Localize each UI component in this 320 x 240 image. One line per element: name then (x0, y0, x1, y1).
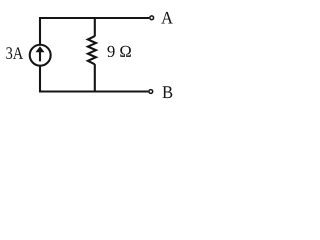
current source I1 circle (30, 45, 51, 66)
wire left lower segment (39, 66, 41, 92)
terminal A circle (150, 16, 154, 20)
wire bottom horizontal (39, 90, 148, 92)
wire top horizontal (39, 17, 149, 19)
resistor R zigzag (88, 36, 96, 64)
resistor R top lead (94, 18, 96, 36)
node A label (161, 12, 173, 24)
node B label (163, 86, 173, 98)
resistor R bottom lead (94, 64, 96, 91)
terminal B circle (149, 90, 153, 94)
label 9 ohm (108, 46, 131, 57)
current source arrow shaft (39, 52, 41, 62)
wire left upper segment (39, 17, 41, 45)
current source arrowhead (36, 46, 45, 52)
label 3A (6, 47, 23, 59)
